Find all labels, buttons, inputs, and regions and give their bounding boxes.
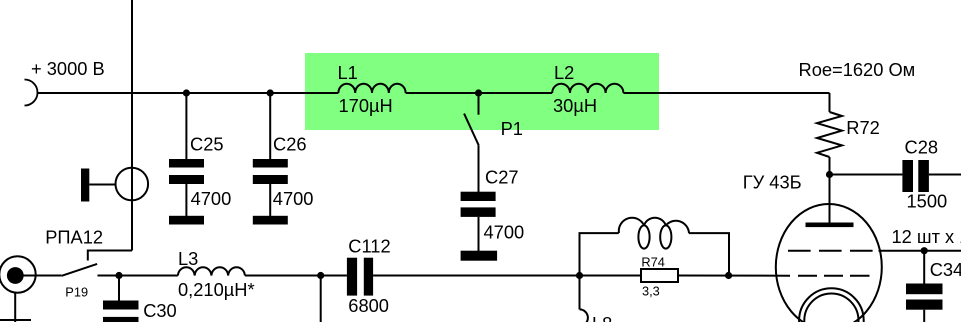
node junction dot P1 bbox=[475, 89, 482, 96]
svg-text:4700: 4700 bbox=[484, 221, 525, 242]
node junction dot C25 bbox=[183, 89, 190, 96]
svg-text:L2: L2 bbox=[554, 62, 574, 83]
wire coax to switch bbox=[24, 275, 62, 277]
capacitor C26 bbox=[253, 93, 288, 216]
svg-text:+ 3000 В: + 3000 В bbox=[31, 58, 105, 79]
wire top main segment 2 bbox=[406, 92, 553, 94]
wire combo right vertical bbox=[689, 233, 729, 275]
svg-text:Roe=1620 Ом: Roe=1620 Ом bbox=[799, 59, 916, 80]
svg-text:C28: C28 bbox=[905, 137, 939, 158]
resistor R74 box bbox=[641, 269, 678, 282]
svg-text:C26: C26 bbox=[273, 133, 307, 154]
wire top main segment 3 bbox=[623, 92, 829, 94]
switch P1 stub bbox=[478, 93, 480, 115]
capacitor C30 bbox=[103, 276, 139, 322]
svg-text:L1: L1 bbox=[338, 62, 358, 83]
switch P1 blade bbox=[464, 114, 479, 146]
svg-text:P19: P19 bbox=[65, 284, 88, 299]
svg-text:C25: C25 bbox=[190, 133, 224, 154]
capacitor C112 bbox=[347, 258, 373, 296]
resistor R72 bbox=[817, 93, 842, 175]
svg-text:R72: R72 bbox=[846, 117, 880, 138]
inductor L8 first hump bbox=[580, 309, 588, 322]
svg-text:C112: C112 bbox=[348, 235, 390, 256]
svg-text:C34: C34 bbox=[930, 259, 961, 280]
wire step to P19 fixed contact bbox=[88, 251, 132, 261]
ground bar C27 bbox=[461, 251, 498, 261]
switch P19 blade bbox=[62, 264, 97, 276]
wire bottom main segment 3 bbox=[373, 275, 641, 277]
wire bottom main segment 4 bbox=[678, 275, 790, 277]
capacitor C34 bbox=[906, 251, 943, 322]
anode lead bbox=[829, 175, 831, 225]
ground bar C25 bbox=[169, 216, 204, 225]
node junction dot C34 bbox=[921, 247, 928, 254]
svg-text:ГУ 43Б: ГУ 43Б bbox=[743, 172, 802, 193]
cathode inner circle bbox=[804, 294, 858, 322]
cathode outer circle bbox=[799, 288, 864, 322]
capacitor C28 bbox=[902, 160, 961, 192]
capacitor C27 bbox=[461, 145, 496, 251]
wire tap down bbox=[320, 276, 322, 322]
svg-text:L8: L8 bbox=[592, 313, 612, 322]
svg-text:C27: C27 bbox=[485, 166, 519, 187]
wire combo left vertical bbox=[580, 233, 619, 275]
ground bar C26 bbox=[253, 216, 288, 225]
node junction dot C112 tap bbox=[317, 272, 324, 279]
wire HV vertical from top edge down to relay step bbox=[131, 0, 133, 251]
svg-text:R74: R74 bbox=[641, 255, 664, 270]
node junction dot anode bbox=[826, 171, 833, 178]
svg-text:6800: 6800 bbox=[348, 295, 389, 316]
capacitor C25 bbox=[169, 93, 204, 216]
inductor L3 bbox=[178, 267, 245, 275]
svg-text:170µH: 170µH bbox=[339, 95, 393, 116]
tube ГУ 43Б envelope bbox=[776, 204, 882, 322]
grid 1 dashed line bbox=[788, 250, 873, 252]
coax connector XW1 bbox=[0, 256, 36, 292]
inductor L2 bbox=[552, 84, 623, 93]
relay circle bbox=[116, 168, 149, 201]
svg-text:L3: L3 bbox=[178, 248, 198, 269]
svg-text:РПА12: РПА12 bbox=[45, 227, 103, 248]
node junction dot combo left bbox=[576, 272, 583, 279]
node junction dot combo right bbox=[725, 272, 732, 279]
wire coax down bbox=[14, 293, 16, 322]
wire bottom main segment 2 bbox=[245, 275, 347, 277]
svg-text:P1: P1 bbox=[501, 118, 523, 139]
inductor L8 lead bbox=[579, 276, 581, 310]
svg-text:3,3: 3,3 bbox=[642, 284, 660, 299]
grid 2 dashed line bbox=[798, 275, 870, 277]
svg-text:12 шт х 1500: 12 шт х 1500 bbox=[892, 226, 961, 247]
wire bottom main segment 1 bbox=[98, 275, 178, 277]
anode plate bar bbox=[806, 223, 854, 228]
svg-text:30µH: 30µH bbox=[553, 95, 597, 116]
highlight green box over L1 L2 bbox=[305, 53, 659, 130]
node junction dot C26 bbox=[267, 89, 274, 96]
svg-text:C30: C30 bbox=[143, 300, 177, 321]
wire anode to C28 bbox=[830, 174, 903, 176]
connector X1 (+3000V input) bbox=[25, 80, 38, 106]
wire grid1 to right edge bbox=[879, 250, 961, 252]
wire top main segment 1 bbox=[37, 92, 339, 94]
node junction dot C30 bbox=[115, 272, 122, 279]
ground line bottom left bbox=[0, 319, 31, 321]
svg-text:1500: 1500 bbox=[907, 191, 948, 212]
inductor L1 bbox=[338, 84, 405, 93]
svg-text:4700: 4700 bbox=[191, 188, 232, 209]
relay РПА12 armature bar bbox=[81, 169, 89, 202]
relay link line bbox=[89, 184, 116, 186]
svg-text:4700: 4700 bbox=[273, 188, 314, 209]
inductor L (parallel with R74) bbox=[619, 218, 689, 249]
svg-text:0,210µH*: 0,210µH* bbox=[178, 279, 255, 300]
